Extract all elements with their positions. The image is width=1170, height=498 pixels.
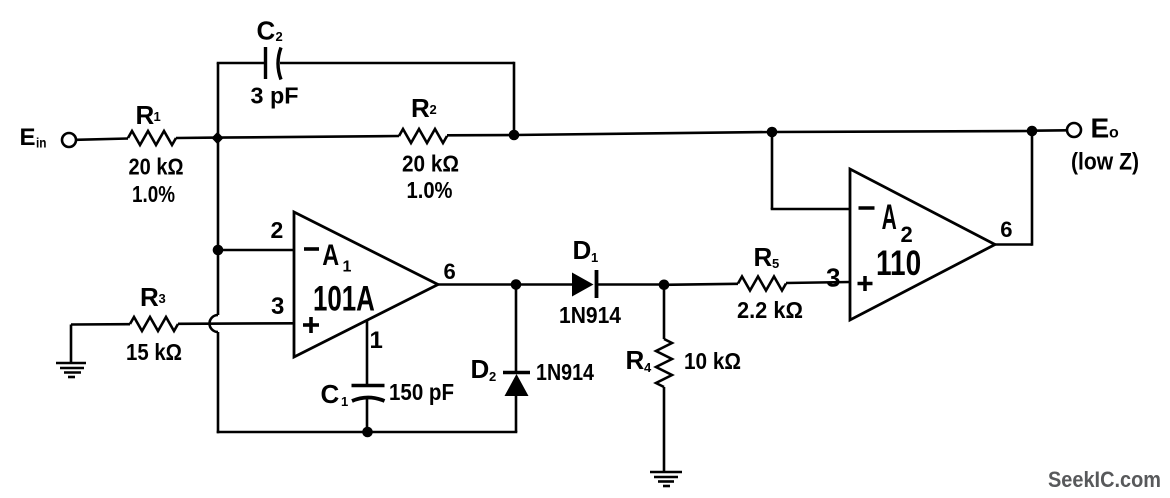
- capacitor C1 bottom plate: [352, 398, 385, 402]
- label D2: [471, 354, 497, 384]
- svg-text:R: R: [411, 93, 430, 123]
- junction node B (R2/C2/main line): [509, 130, 520, 141]
- node Ein label: [20, 124, 47, 151]
- diode D1 triangle (pointing right): [572, 273, 594, 297]
- label A2: [882, 199, 913, 247]
- output terminal circle: [1067, 123, 1081, 137]
- capacitor C2 right plate: [278, 48, 281, 80]
- diode D1 cathode bar: [595, 270, 599, 298]
- wire R5 to A2 non-inverting input: [786, 282, 850, 283]
- wire C2 branch down to node B: [513, 62, 516, 135]
- wire vertical pin2 node down to crossover hop: [217, 250, 220, 315]
- wire node D to output terminal: [1032, 129, 1067, 132]
- wire node F down to R4: [663, 285, 666, 339]
- svg-text:6: 6: [444, 259, 456, 284]
- node Eo label: [1091, 113, 1120, 144]
- wire crossover hop (vertical jumps R3 wire): [210, 315, 219, 332]
- wire node C down (A2 feedback): [771, 132, 774, 209]
- capacitor C2 left plate: [264, 47, 267, 79]
- wire node E to D1: [516, 283, 572, 286]
- svg-text:6: 6: [1000, 217, 1012, 242]
- junction node C (feedback to A2): [767, 127, 778, 138]
- svg-text:C: C: [257, 16, 276, 46]
- resistor R3: [130, 317, 178, 331]
- svg-text:A: A: [882, 199, 897, 238]
- svg-text:2: 2: [271, 217, 284, 243]
- diode D2 triangle (anode, pointing up): [505, 374, 529, 396]
- svg-text:E: E: [20, 124, 36, 151]
- svg-text:1: 1: [591, 250, 598, 265]
- ground (R4): [650, 472, 682, 486]
- wire input terminal to R1: [76, 139, 128, 140]
- label R3: [140, 282, 166, 312]
- svg-text:1N914: 1N914: [559, 302, 621, 328]
- svg-text:3: 3: [826, 263, 840, 293]
- wire vertical node A down to pin2 node: [217, 138, 220, 250]
- svg-text:A: A: [322, 238, 339, 271]
- svg-text:2: 2: [276, 29, 283, 44]
- wire A1 output to node E: [438, 283, 516, 286]
- svg-text:o: o: [1109, 125, 1119, 142]
- wire node C to node D: [772, 131, 1032, 132]
- svg-text:1N914: 1N914: [536, 359, 594, 385]
- svg-text:SeekIC.com: SeekIC.com: [1048, 467, 1161, 492]
- wire vertical hop down to bottom rail: [217, 332, 220, 433]
- wire pin 1 of A1 down to C1: [366, 320, 369, 385]
- wire bottom rail: [217, 431, 518, 434]
- input terminal circle: [62, 133, 76, 147]
- label R2: [411, 93, 437, 123]
- junction node A (R1/R2/C2): [212, 132, 224, 144]
- label R1: [136, 100, 161, 130]
- svg-text:R: R: [136, 100, 155, 130]
- ground (left, R3): [56, 325, 86, 378]
- label C1: [321, 379, 349, 409]
- svg-text:R: R: [754, 242, 773, 272]
- wire D2 anode to bottom rail: [515, 395, 518, 432]
- wire A2 output: [995, 243, 1032, 246]
- wire R2 to node B: [447, 134, 514, 137]
- wire feedback to A2 inverting input: [771, 208, 850, 211]
- resistor R1: [128, 131, 176, 145]
- svg-text:in: in: [36, 135, 47, 151]
- svg-text:3: 3: [271, 293, 284, 320]
- svg-text:110: 110: [876, 243, 921, 283]
- wire pin2 node to A1 inverting input: [218, 249, 294, 252]
- svg-text:R: R: [140, 282, 159, 312]
- label A1: [322, 238, 351, 275]
- svg-text:2.2 kΩ: 2.2 kΩ: [737, 297, 803, 323]
- svg-text:E: E: [1091, 113, 1110, 144]
- svg-text:(low Z): (low Z): [1071, 149, 1139, 176]
- op-amp A2 triangle: [850, 169, 995, 320]
- svg-text:C: C: [321, 379, 340, 409]
- svg-text:20 kΩ: 20 kΩ: [129, 154, 184, 180]
- svg-text:R: R: [626, 345, 645, 375]
- minus sign (A1 inverting): [304, 247, 319, 251]
- svg-text:3 pF: 3 pF: [251, 83, 299, 109]
- svg-text:101A: 101A: [313, 279, 375, 319]
- wire R4 to ground: [663, 387, 666, 472]
- svg-text:D: D: [573, 235, 592, 265]
- junction node F (D1/R4/R5): [659, 280, 670, 291]
- svg-text:15 kΩ: 15 kΩ: [126, 339, 182, 365]
- wire node A to R2: [218, 136, 399, 138]
- svg-text:2: 2: [430, 102, 437, 117]
- resistor R2: [399, 129, 447, 143]
- svg-text:1: 1: [370, 327, 383, 354]
- svg-text:5: 5: [772, 256, 779, 271]
- wire R3 to A1 non-inverting input: [178, 322, 294, 325]
- wire node E down to D2: [515, 285, 518, 373]
- plus sign (A2 non-inverting): [858, 276, 873, 291]
- op-amp A1 triangle: [294, 212, 438, 357]
- wire A2 output up to node D: [1031, 131, 1034, 246]
- wire node F to R5: [664, 284, 738, 285]
- resistor R4 (vertical): [656, 339, 672, 387]
- resistor R5: [738, 277, 786, 291]
- wire C1 bottom to bottom rail: [366, 399, 369, 432]
- svg-text:20 kΩ: 20 kΩ: [402, 151, 459, 177]
- wire D1 to node F: [598, 283, 664, 286]
- wire node B to node C: [514, 132, 772, 135]
- junction pin2 node: [213, 245, 224, 256]
- svg-text:4: 4: [644, 360, 652, 375]
- diode D2 cathode bar: [503, 371, 530, 375]
- svg-text:1: 1: [154, 109, 161, 124]
- wire C2 top right: [280, 62, 514, 65]
- junction node E (A1 out/D1/D2): [511, 279, 522, 290]
- wire ground to R3: [71, 323, 130, 326]
- minus sign (A2 inverting): [859, 206, 875, 210]
- svg-text:3: 3: [159, 291, 166, 306]
- junction C1 on bottom rail: [362, 427, 373, 438]
- junction node D (A2 output to Eo): [1027, 126, 1038, 137]
- svg-text:1: 1: [341, 394, 348, 409]
- label C2: [257, 16, 283, 46]
- wire R1 to node A: [176, 136, 218, 139]
- wire vertical node A up to C2 branch: [217, 63, 220, 138]
- plus sign (A1 non-inverting): [303, 317, 319, 333]
- svg-text:150 pF: 150 pF: [389, 379, 454, 405]
- svg-text:2: 2: [489, 369, 496, 384]
- wire C2 top left: [217, 62, 265, 65]
- label D1: [573, 235, 599, 265]
- svg-text:1.0%: 1.0%: [132, 181, 175, 207]
- svg-text:10 kΩ: 10 kΩ: [684, 348, 741, 374]
- svg-text:D: D: [471, 354, 490, 384]
- capacitor C1 top plate: [352, 384, 385, 388]
- svg-text:1: 1: [343, 259, 352, 276]
- label R4: [626, 345, 653, 375]
- label R5: [754, 242, 780, 272]
- svg-text:1.0%: 1.0%: [407, 177, 453, 203]
